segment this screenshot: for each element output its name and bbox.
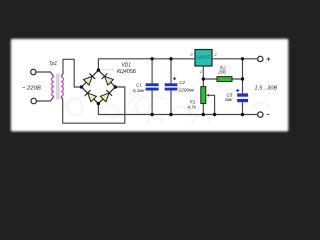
svg-text:200: 200 xyxy=(217,70,226,75)
svg-text:КЦ405Б: КЦ405Б xyxy=(117,69,137,75)
svg-text:C1: C1 xyxy=(136,82,142,87)
svg-text:~ 220В: ~ 220В xyxy=(22,85,41,91)
svg-text:1мк: 1мк xyxy=(225,97,234,102)
svg-text:4,7к: 4,7к xyxy=(188,104,197,109)
svg-text:1,5...30В: 1,5...30В xyxy=(255,86,278,92)
svg-text:LM317: LM317 xyxy=(197,55,211,60)
svg-text:2200мк: 2200мк xyxy=(178,87,195,92)
svg-text:Тр1: Тр1 xyxy=(49,61,58,67)
svg-text:VD1: VD1 xyxy=(121,63,131,69)
svg-text:0,1мк: 0,1мк xyxy=(133,88,145,93)
svg-text:2: 2 xyxy=(213,52,217,57)
svg-text:C2: C2 xyxy=(179,80,185,85)
